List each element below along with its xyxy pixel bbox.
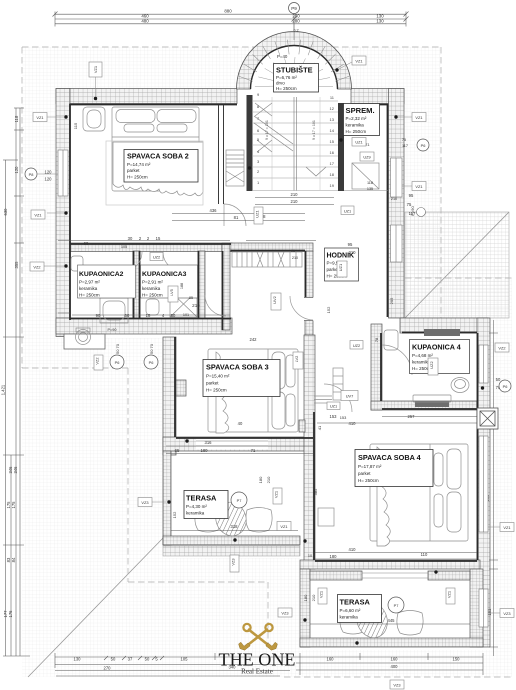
svg-text:SPREM.: SPREM.: [346, 106, 375, 115]
svg-text:400: 400: [391, 664, 399, 669]
svg-text:P=6,60 m²: P=6,60 m²: [340, 608, 361, 613]
svg-text:152: 152: [326, 306, 331, 313]
room label SPAVACA SOBA 4: [355, 450, 433, 487]
svg-text:160: 160: [327, 657, 335, 662]
svg-text:UZ1: UZ1: [330, 404, 337, 409]
svg-text:P9: P9: [291, 6, 297, 11]
svg-text:210: 210: [266, 476, 271, 483]
room label SPAVACA SOBA 2: [124, 150, 198, 183]
roof hatch top-right: [405, 212, 509, 318]
kup2/3 inner faces: [133, 251, 135, 318]
rotated small dims: [73, 122, 492, 615]
wall soba4 bottom: [300, 560, 480, 569]
soba2 right partition: [219, 105, 224, 204]
wall terrace2 left: [300, 569, 310, 647]
soba4 top inner / kup4 bottom: [382, 408, 477, 410]
stair treads horizontal: [253, 101, 338, 191]
svg-text:117: 117: [402, 144, 408, 148]
svg-text:P=4,68 m²: P=4,68 m²: [412, 353, 433, 358]
stair central divider: [293, 97, 295, 191]
svg-text:130: 130: [74, 657, 82, 662]
svg-text:152: 152: [172, 511, 177, 518]
svg-text:180: 180: [303, 594, 308, 601]
terrace2 chairs and table: [340, 598, 423, 642]
svg-text:78: 78: [374, 337, 379, 342]
svg-text:VZ2: VZ2: [95, 357, 100, 364]
svg-text:280: 280: [292, 18, 300, 23]
bottom dimension lines: [55, 653, 483, 676]
svg-text:50: 50: [496, 377, 501, 382]
svg-text:P=4,30 m²: P=4,30 m²: [186, 504, 207, 509]
kup3 sink: [146, 299, 159, 315]
svg-text:P7: P7: [237, 498, 242, 503]
kup3 shower: [170, 291, 197, 317]
svg-text:LV2: LV2: [294, 356, 299, 363]
room label SPREM: [344, 104, 380, 136]
stair numbers right flight: [330, 95, 335, 188]
svg-text:VZ3: VZ3: [231, 558, 236, 565]
top dimension lines: [53, 12, 409, 33]
svg-text:50: 50: [125, 313, 130, 318]
svg-text:keramika: keramika: [142, 286, 161, 291]
svg-text:175: 175: [11, 501, 16, 509]
inner wall faces dark: [70, 105, 478, 562]
room label TERASA 1: [184, 491, 228, 519]
svg-text:318: 318: [231, 524, 239, 529]
svg-text:STUBIŠTE: STUBIŠTE: [276, 66, 313, 75]
svg-text:VZ1: VZ1: [415, 115, 422, 120]
svg-text:keramika: keramika: [346, 123, 365, 128]
svg-text:37: 37: [128, 657, 133, 662]
svg-text:H= 250cm: H= 250cm: [346, 129, 367, 134]
P9 circle: [289, 3, 300, 41]
svg-text:SPAVACA SOBA 4: SPAVACA SOBA 4: [358, 453, 422, 462]
svg-text:P7: P7: [394, 603, 399, 608]
soba3 bed: [208, 349, 298, 433]
svg-text:85: 85: [189, 296, 193, 300]
kup2 sink: [71, 256, 83, 271]
sprem/right wing: [351, 105, 388, 318]
svg-text:VZ1: VZ1: [274, 491, 279, 498]
svg-text:135: 135: [367, 187, 373, 191]
svg-text:50: 50: [171, 313, 176, 318]
wall terrace2 top stubs: [310, 571, 362, 580]
svg-text:H= 250cm: H= 250cm: [358, 478, 379, 483]
svg-text:410: 410: [349, 421, 357, 426]
svg-text:118: 118: [367, 181, 373, 185]
soba4 nightstand: [318, 508, 334, 526]
kup4 left inner: [380, 333, 382, 401]
svg-text:50 70: 50 70: [115, 343, 120, 354]
svg-text:parket: parket: [358, 471, 371, 476]
wall soba3 left: [163, 337, 176, 455]
landing line below sprem: [344, 190, 388, 192]
svg-text:18: 18: [330, 172, 335, 177]
svg-text:UZ1: UZ1: [255, 210, 260, 217]
THE ONE logo: [219, 624, 296, 676]
svg-text:41: 41: [317, 425, 322, 430]
svg-text:205: 205: [389, 297, 394, 304]
arch inner edge dark: [251, 46, 338, 89]
soba3 door arc UV2: [290, 296, 313, 320]
wall step soba4: [299, 420, 305, 432]
kup2 door arc: [122, 252, 142, 272]
svg-text:13: 13: [330, 117, 335, 122]
svg-text:TERASA: TERASA: [340, 598, 371, 607]
svg-text:P=15,40 m²: P=15,40 m²: [206, 374, 230, 379]
room label KUPAONICA2: [78, 265, 136, 298]
svg-text:50: 50: [145, 657, 150, 662]
kup3 wc: [176, 268, 193, 280]
svg-text:VZ3: VZ3: [503, 611, 510, 616]
svg-text:346: 346: [13, 466, 18, 474]
svg-text:153: 153: [340, 415, 347, 420]
stair walls dark: [247, 95, 253, 191]
wall column x222: [222, 243, 230, 330]
svg-text:210: 210: [291, 199, 299, 204]
soba2 bed: [112, 107, 203, 196]
svg-text:210: 210: [349, 250, 357, 255]
svg-text:UZ1: UZ1: [355, 140, 362, 145]
svg-text:VZ1: VZ1: [447, 591, 452, 598]
svg-text:19: 19: [330, 183, 335, 188]
svg-text:71: 71: [251, 448, 256, 453]
svg-text:180: 180: [330, 554, 338, 559]
svg-text:50: 50: [111, 657, 116, 662]
svg-text:445: 445: [388, 618, 396, 623]
svg-text:880: 880: [224, 9, 232, 14]
kup3 door arc: [163, 252, 182, 271]
soba4 left inner: [313, 412, 315, 560]
svg-text:VZ1: VZ1: [280, 524, 287, 529]
svg-text:17: 17: [330, 161, 335, 166]
svg-text:84: 84: [11, 557, 16, 562]
room label SPAVACA SOBA 3: [203, 360, 280, 397]
svg-text:H= 250cm: H= 250cm: [142, 293, 163, 298]
svg-text:VZ3: VZ3: [141, 500, 148, 505]
stair flight guide verticals: [271, 97, 273, 190]
svg-text:UZ2: UZ2: [153, 255, 160, 260]
svg-text:P6: P6: [149, 360, 154, 365]
kup2 bathtub: [100, 298, 128, 323]
stair radial treads in arch: [255, 57, 333, 87]
svg-text:P8: P8: [29, 172, 34, 177]
svg-text:180: 180: [258, 476, 263, 483]
svg-text:95: 95: [409, 193, 414, 198]
svg-text:110: 110: [421, 552, 428, 557]
svg-text:VZ1: VZ1: [34, 213, 41, 218]
svg-text:VZ2: VZ2: [33, 265, 40, 270]
wall soba4 right: [477, 318, 490, 647]
kup2 toilet: [76, 328, 91, 345]
chimney box with X: [477, 408, 498, 429]
wall between bathrooms: [133, 251, 140, 318]
left dimension lines: [3, 108, 30, 656]
hodnik wardrobe: [314, 368, 343, 403]
svg-text:P=17,87 m²: P=17,87 m²: [358, 464, 382, 469]
soba4 right inner: [477, 333, 479, 560]
svg-text:H= 250cm: H= 250cm: [127, 175, 148, 180]
svg-text:keramika: keramika: [340, 615, 359, 620]
svg-text:TERASA: TERASA: [186, 494, 217, 503]
svg-text:VZ1: VZ1: [36, 115, 43, 120]
wall kupaonica4 bottom: [371, 401, 488, 410]
soba4 bottom inner: [315, 560, 477, 562]
wall soba3/hodnik: [305, 251, 313, 335]
svg-text:153: 153: [330, 414, 338, 419]
svg-text:P6: P6: [421, 143, 426, 148]
soba3 top inner: [231, 250, 306, 252]
svg-text:120: 120: [14, 166, 19, 174]
svg-text:81: 81: [234, 215, 239, 220]
kup4 door arc: [382, 345, 412, 375]
svg-text:drvo: drvo: [276, 81, 285, 86]
svg-text:355: 355: [14, 261, 19, 269]
svg-text:12: 12: [330, 106, 335, 111]
wall top-left outer: [56, 89, 237, 104]
kup4 vanity: [415, 401, 449, 407]
svg-text:UZ2: UZ2: [429, 361, 434, 368]
wall bathrooms bottom: [56, 318, 232, 334]
soba2 rug outline: [106, 141, 203, 205]
svg-text:385: 385: [313, 488, 318, 495]
svg-text:242: 242: [250, 337, 258, 342]
svg-text:THE ONE: THE ONE: [219, 650, 296, 670]
kup4 top inner: [402, 332, 477, 334]
svg-text:176: 176: [8, 610, 13, 618]
svg-text:Real Estate: Real Estate: [241, 668, 273, 676]
svg-text:P=14,74 m²: P=14,74 m²: [127, 162, 151, 167]
svg-text:118: 118: [14, 115, 19, 122]
svg-text:9 x 17 = 101: 9 x 17 = 101: [265, 120, 269, 140]
svg-text:630: 630: [3, 208, 8, 216]
svg-text:14: 14: [330, 128, 335, 133]
arch annulus: [237, 31, 352, 89]
svg-text:30: 30: [128, 236, 133, 241]
small interior dims: [84, 138, 501, 623]
wall bathrooms top: [70, 243, 232, 252]
interior dim lines: [58, 198, 498, 657]
kup4 tub small: [384, 330, 398, 350]
stair numbers left flight: [257, 92, 260, 185]
svg-text:SPAVACA SOBA 3: SPAVACA SOBA 3: [206, 363, 269, 372]
room label KUPAONICA3: [141, 265, 198, 298]
svg-text:VZ1: VZ1: [93, 66, 98, 73]
soba2 door arc: [224, 204, 246, 226]
svg-text:KUPAONICA2: KUPAONICA2: [79, 271, 124, 278]
svg-text:95: 95: [291, 249, 295, 253]
terrace1 chairs and table: [195, 498, 272, 540]
wall soba4 left: [304, 335, 315, 569]
wall marker dots: [64, 68, 484, 644]
svg-text:18: 18: [146, 313, 151, 318]
wall soba3 top: [230, 243, 313, 252]
bathrooms top inner: [70, 243, 231, 245]
svg-text:VZ1: VZ1: [319, 591, 324, 598]
svg-text:68: 68: [84, 241, 89, 246]
svg-text:16: 16: [330, 150, 335, 155]
soba4 door arc: [324, 384, 352, 412]
svg-text:P=40: P=40: [277, 54, 288, 59]
wall kupaonica3 right: [198, 251, 205, 318]
svg-text:40: 40: [238, 421, 243, 426]
svg-text:keramika: keramika: [79, 286, 98, 291]
svg-text:210: 210: [291, 192, 299, 197]
svg-text:10: 10: [308, 554, 312, 558]
wall soba3 bottom: [163, 437, 313, 451]
kup3 entry door arc: [205, 295, 226, 316]
sprem closet: [352, 163, 379, 189]
svg-text:P6: P6: [115, 360, 120, 365]
svg-text:115: 115: [73, 122, 78, 129]
svg-text:UV7: UV7: [346, 394, 354, 399]
svg-text:VZ3: VZ3: [393, 683, 400, 688]
wall kupaonica4 left: [371, 324, 382, 410]
room label KUPAONICA 4: [410, 340, 470, 374]
svg-text:65: 65: [175, 448, 180, 453]
wall terrace2 bottom: [300, 638, 483, 647]
svg-text:VZ1: VZ1: [415, 184, 422, 189]
svg-text:210: 210: [391, 197, 397, 201]
svg-text:130: 130: [376, 18, 384, 23]
svg-text:P6: P6: [503, 384, 508, 389]
svg-text:75: 75: [402, 138, 406, 142]
roof diagonal bottom-left: [28, 537, 164, 677]
wall terrace2 right: [470, 569, 483, 647]
wall left outer: [56, 89, 70, 337]
wing top-left: [70, 105, 237, 321]
svg-text:SPAVACA SOBA 2: SPAVACA SOBA 2: [127, 152, 189, 161]
arch radial ticks: [239, 40, 349, 82]
svg-text:180: 180: [201, 448, 209, 453]
room label STUBISTE: [274, 64, 319, 93]
svg-text:257: 257: [408, 414, 416, 419]
svg-text:UZ1: UZ1: [344, 209, 351, 214]
svg-text:188: 188: [180, 283, 184, 289]
svg-text:316: 316: [205, 440, 213, 445]
svg-text:UV2: UV2: [272, 296, 277, 304]
soba3 right inner: [305, 251, 307, 297]
svg-text:15: 15: [330, 139, 335, 144]
svg-text:VZ1: VZ1: [355, 59, 362, 64]
svg-text:KUPAONICA 4: KUPAONICA 4: [412, 343, 461, 352]
wall terrace1 bottom: [163, 536, 300, 545]
svg-text:P=2,91 m²: P=2,91 m²: [142, 280, 163, 285]
soba3 door opening: [303, 298, 314, 321]
svg-text:210: 210: [192, 303, 200, 308]
svg-text:UZ1: UZ1: [338, 264, 343, 271]
room label TERASA 2: [338, 595, 382, 623]
wall top-right outer: [351, 89, 404, 104]
svg-text:LV5: LV5: [169, 289, 174, 296]
svg-text:210: 210: [311, 594, 316, 601]
svg-text:75: 75: [407, 202, 412, 207]
kup4 toilet: [451, 378, 469, 393]
soba2 shower cabin top-left: [83, 107, 105, 131]
door gap terrace1: [196, 439, 268, 450]
svg-text:1,421: 1,421: [1, 384, 6, 395]
svg-text:50 70: 50 70: [149, 343, 154, 354]
ground texture lower: [22, 368, 512, 677]
stair V arrow right flight: [306, 167, 326, 176]
svg-text:480: 480: [141, 18, 149, 23]
soba3 closet with hangers: [232, 252, 302, 267]
svg-text:410: 410: [349, 547, 357, 552]
svg-text:keramika: keramika: [186, 511, 205, 516]
soba3 left inner: [174, 337, 176, 437]
svg-text:160: 160: [391, 657, 399, 662]
svg-text:101: 101: [183, 313, 189, 317]
svg-text:parket: parket: [127, 168, 140, 173]
wall terrace1 left: [163, 451, 171, 545]
svg-text:H= 250cm: H= 250cm: [206, 388, 227, 393]
svg-text:150: 150: [453, 657, 461, 662]
svg-text:KUPAONICA3: KUPAONICA3: [142, 271, 187, 278]
svg-text:270: 270: [104, 666, 112, 671]
svg-text:VZ2: VZ2: [498, 346, 505, 351]
svg-text:210: 210: [292, 256, 298, 260]
svg-text:parket: parket: [206, 381, 219, 386]
wall kupaonica4 top: [400, 318, 488, 333]
svg-text:P=90: P=90: [410, 205, 415, 215]
svg-text:P=6,76 m²: P=6,76 m²: [276, 75, 297, 80]
walkway band below terrace1: [163, 546, 300, 556]
soba2 wardrobe right: [226, 150, 244, 186]
svg-text:436: 436: [210, 208, 218, 213]
svg-text:9 x 17 = 101: 9 x 17 = 101: [312, 120, 316, 140]
soba4 bed: [370, 444, 468, 546]
svg-text:105: 105: [181, 657, 189, 662]
svg-text:VZ3: VZ3: [281, 611, 288, 616]
svg-text:90: 90: [96, 313, 101, 318]
building interior white fills: [56, 31, 490, 650]
svg-text:120: 120: [45, 177, 53, 182]
svg-text:P=2,97 m²: P=2,97 m²: [79, 280, 100, 285]
svg-text:UZ9: UZ9: [363, 155, 370, 160]
svg-text:H= 250cm: H= 250cm: [79, 293, 100, 298]
svg-text:UZ2: UZ2: [353, 343, 360, 348]
bathrooms bottom inner: [70, 318, 231, 320]
window lines in left wall: [58, 150, 488, 627]
ground texture upper: [22, 47, 441, 368]
svg-text:VZ1: VZ1: [503, 525, 510, 530]
stair diagonal guide left flight: [254, 116, 293, 144]
svg-text:15: 15: [156, 236, 161, 241]
svg-text:P=90: P=90: [108, 328, 117, 332]
ground texture right mid strip: [441, 278, 512, 368]
room label HODNIK: [325, 248, 359, 281]
kup2 toilet niche bump: [64, 334, 105, 349]
wall right outer: [389, 89, 405, 319]
svg-text:P=2,32 m²: P=2,32 m²: [346, 116, 367, 121]
svg-text:H= 250cm: H= 250cm: [276, 86, 297, 91]
svg-text:105: 105: [121, 245, 127, 249]
crossed gold keys: [247, 629, 270, 646]
kup4 counter top: [424, 329, 460, 336]
svg-text:95: 95: [348, 242, 353, 247]
wall step soba3: [176, 380, 186, 396]
soba3 bottom inner: [176, 437, 313, 439]
